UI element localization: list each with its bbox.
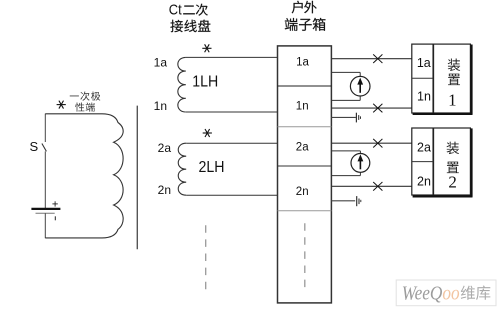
device 2 thick bottom border [413,195,473,197]
device 1 terminal 1n label [417,90,431,104]
wire: 2n terminal box to device 2 [331,185,411,187]
label: title 'Ct二次' (CT secondary) [169,3,208,19]
label: winding designator 1LH [192,74,218,91]
device 2 terminal 2n label [417,174,431,188]
svg-text:1n: 1n [296,101,309,113]
terminal box divider 2a/2n [278,165,332,167]
continuation dashed line (more windings) [205,225,207,291]
label: battery - sign [54,216,56,220]
ground branch wire (group 1) [331,116,356,118]
terminal box divider 1a/1n [278,85,332,87]
label: title '端子箱' (terminal box) [285,18,326,31]
svg-text:1a: 1a [296,57,309,69]
current arrow (group 1) [357,78,363,93]
wire: primary loop left edge lower segment [44,213,46,238]
label: switch designator S [30,139,39,154]
winding 1LH coil [178,57,186,112]
terminal box divider 2n/spare [278,210,332,212]
wire: 2a terminal box to device 2 [331,142,411,144]
wire: 1a from winding 1LH to terminal box [186,56,278,58]
test link x-mark on wire 1a [373,54,382,63]
winding 2LH coil [178,143,186,195]
battery negative plate [36,212,55,214]
primary winding (coil) with loop top/bottom wires [45,114,123,238]
wire: 1n terminal box to device 1 [331,107,411,109]
device 2 column divider [432,128,434,195]
ground symbol (group 1) [356,113,360,123]
svg-text:1n: 1n [417,90,431,104]
terminal box divider 1n/2a [278,126,332,128]
svg-text:1: 1 [448,90,457,109]
terminal box continuation dashed line [304,223,306,289]
label: battery + sign [52,201,57,206]
device 1 terminal 1a label [417,56,431,70]
svg-text:S: S [30,139,39,154]
device 1 box outline [412,44,471,113]
device 1 thick bottom border [413,113,473,115]
node label 2n (winding terminal) [158,183,171,197]
wire: 1a terminal box to device 1 [331,58,411,60]
device 2 terminal 2a label [417,141,431,155]
svg-text:1LH: 1LH [192,74,218,91]
label: '一次极性端' (primary polarity terminal) line1 [70,91,101,100]
device 2 box outline [412,128,471,195]
device 1 label '1' [448,90,457,109]
battery positive plate [31,208,60,210]
current arrow (group 2) [358,154,364,169]
test link x-mark on wire 1n [373,104,382,113]
svg-text:2n: 2n [296,186,309,198]
node label 1a (winding terminal) [154,56,168,70]
svg-text:1n: 1n [154,99,167,113]
svg-text:1a: 1a [154,56,168,70]
terminal 1n label [296,101,309,113]
transformer core line [136,106,138,250]
node label 1n (winding terminal) [154,99,167,113]
ground branch wire (group 2) [331,200,355,202]
watermark text WeeQoo [402,283,460,305]
wire: primary loop left edge middle segment [44,151,46,208]
current indicator circle (group 2) [351,154,370,173]
metering loop wires (group 1) [331,72,360,100]
polarity asterisk (winding 2LH) [203,129,212,137]
watermark frame [396,280,496,306]
terminal box outline (户外端子箱) [278,46,332,303]
watermark text 维库 [461,286,491,300]
svg-text:Ct: Ct [169,3,182,19]
wire: 2n from winding 2LH to terminal box [186,194,277,196]
metering loop wires (group 2) [331,151,360,176]
wire: 1n from winding 1LH to terminal box [186,111,278,113]
device 1 label '装置' [448,59,460,86]
device 2 row divider 2a/2n [412,161,434,163]
ground symbol (group 2) [357,196,361,206]
current indicator circle (group 1) [350,76,370,96]
svg-text:WeeQoo: WeeQoo [402,283,460,305]
svg-text:2LH: 2LH [199,159,225,176]
switch S blade [42,144,47,152]
svg-text:2a: 2a [417,141,431,155]
device 1 thick right border [470,45,472,115]
device 2 label '2' [448,173,457,192]
svg-text:2n: 2n [417,174,431,188]
terminal 2a label [296,142,309,154]
label: winding designator 2LH [199,159,225,176]
device 2 thick right border [470,128,472,196]
label: '性端' line2 [75,102,95,111]
device 1 row divider 1a/1n [412,77,434,79]
svg-text:1a: 1a [417,56,431,70]
svg-text:2n: 2n [158,183,171,197]
test link x-mark on wire 2n [373,182,382,191]
label: title '户外' (outdoor) [292,1,317,14]
device 1 column divider [432,44,434,113]
node label 2a (winding terminal) [158,141,172,155]
terminal 1a label [296,57,309,69]
test link x-mark on wire 2a [373,139,382,148]
svg-text:2: 2 [448,173,457,192]
svg-text:2a: 2a [296,142,309,154]
label: title '接线盘' (terminal board) [170,20,210,33]
wire: 2a from winding 2LH to terminal box [186,142,277,144]
terminal 2n label [296,186,309,198]
svg-text:2a: 2a [158,141,172,155]
wire: primary loop left edge upper segment [44,114,46,142]
polarity asterisk (winding 1LH) [202,44,211,52]
polarity asterisk (primary winding) [57,101,66,109]
device 2 label '装置' [447,142,459,174]
